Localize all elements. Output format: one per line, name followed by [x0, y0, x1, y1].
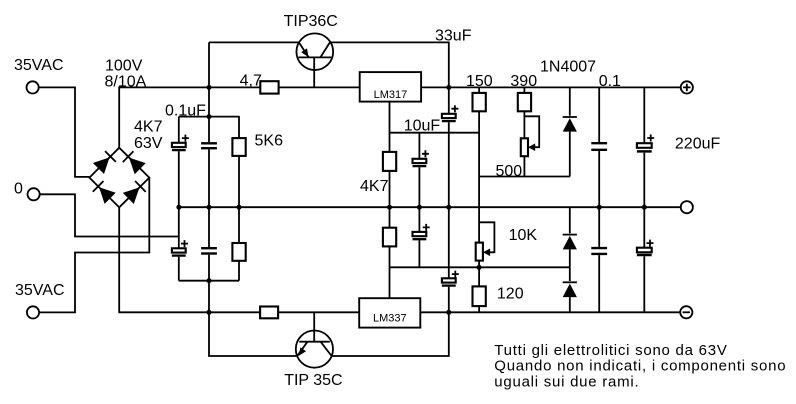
transistor TIP35C	[296, 312, 449, 367]
bridge rectifier diamond	[89, 148, 149, 208]
svg-text:1N4007: 1N4007	[540, 59, 596, 76]
bridge diode D1 (left-top edge)	[93, 151, 116, 174]
bridge diode D4 (bottom-right edge)	[123, 181, 146, 204]
wire: LM337 ADJ node line	[390, 266, 570, 268]
capacitor 0.1 (non-polar)	[591, 87, 607, 207]
wire: main vertical node column x=208.5 (top wire corner to cap)	[208, 42, 210, 142]
resistor 5K6 lower	[232, 207, 245, 281]
terminal + output	[681, 81, 693, 93]
svg-text:0.1uF: 0.1uF	[165, 103, 206, 120]
svg-text:5K6: 5K6	[255, 133, 284, 150]
svg-text:0: 0	[14, 181, 23, 198]
svg-text:Quando non indicati, i compone: Quando non indicati, i componenti sono	[494, 358, 786, 375]
svg-text:500: 500	[496, 163, 523, 180]
wire: top raw + rail	[119, 87, 681, 147]
svg-text:LM337: LM337	[373, 313, 407, 325]
capacitor 0.1 lower (non-polar)	[591, 207, 607, 312]
svg-text:TIP36C: TIP36C	[284, 13, 338, 30]
svg-text:35VAC: 35VAC	[14, 57, 64, 74]
svg-text:TIP 35C: TIP 35C	[284, 372, 342, 389]
svg-text:4,7: 4,7	[240, 73, 262, 90]
op-amp box LM317	[360, 72, 421, 102]
svg-text:8/10A: 8/10A	[105, 74, 147, 91]
trimmer 500	[521, 116, 539, 176]
terminal 0	[27, 188, 178, 236]
terminal 35VAC top	[26, 81, 89, 177]
resistor 4,7 (series + rail)	[260, 81, 278, 93]
junction dots	[207, 85, 212, 90]
terminal - output	[680, 306, 692, 318]
capacitor 0.1uF lower (non-polar)	[201, 207, 217, 253]
svg-text:33uF: 33uF	[435, 28, 472, 45]
bridge diode D2 (right-top edge)	[123, 151, 146, 174]
diode 1N4007 top	[563, 87, 577, 176]
svg-text:10uF: 10uF	[404, 118, 441, 135]
bridge diode D3 (bottom-left edge)	[93, 181, 116, 204]
note text	[494, 342, 786, 390]
capacitor 4K7 63V - (electrolytic lower)	[172, 207, 188, 281]
svg-text:LM317: LM317	[374, 89, 408, 101]
wire: bottom raw - rail	[119, 207, 681, 312]
svg-text:4K7: 4K7	[360, 178, 389, 195]
capacitor 33uF (electrolytic)	[442, 87, 459, 207]
transistor TIP36C	[209, 33, 449, 87]
svg-text:150: 150	[466, 73, 493, 90]
svg-text:uguali sui due rami.: uguali sui due rami.	[494, 373, 639, 390]
svg-text:10K: 10K	[509, 227, 538, 244]
svg-text:0.1: 0.1	[599, 73, 621, 90]
terminal 0 output	[681, 201, 693, 213]
diode 1N4007 lower-2	[563, 267, 577, 312]
capacitor 4K7 63V + (electrolytic)	[172, 117, 189, 208]
resistor 5K6	[232, 117, 245, 208]
wire: node to - rail and TIP35C emitter	[209, 255, 297, 356]
resistor 150	[473, 87, 486, 243]
wire: LM317 ADJ	[390, 102, 480, 133]
capacitor 220uF + (electrolytic)	[637, 87, 654, 207]
capacitor 10uF (electrolytic)	[413, 133, 429, 208]
terminal 35VAC bottom	[27, 178, 149, 319]
wire: 500 bottom line	[479, 176, 570, 178]
op-amp box LM337	[359, 298, 420, 327]
trimmer 10K	[476, 222, 495, 267]
svg-text:63V: 63V	[134, 135, 163, 152]
resistor 4K7 lower (LM337 adj)	[383, 207, 396, 267]
wire: middle 0V rail	[179, 206, 681, 208]
resistor 4,7 lower (series - rail)	[260, 307, 278, 319]
svg-text:35VAC: 35VAC	[15, 282, 65, 299]
svg-text:4K7: 4K7	[134, 119, 163, 136]
capacitor 33uF lower (electrolytic)	[442, 207, 459, 312]
resistor 390	[518, 87, 531, 138]
svg-text:390: 390	[510, 73, 537, 90]
svg-text:100V: 100V	[105, 58, 143, 75]
capacitor 10uF lower (electrolytic)	[413, 207, 430, 267]
svg-text:220uF: 220uF	[675, 136, 721, 153]
capacitor 220uF - (electrolytic)	[637, 207, 654, 312]
capacitor 0.1uF (non-polar)	[201, 143, 217, 207]
svg-text:Tutti gli elettrolitici sono d: Tutti gli elettrolitici sono da 63V	[494, 342, 727, 359]
resistor 120	[473, 267, 486, 312]
resistor 4K7 (LM317 adj)	[383, 133, 396, 208]
wire: top node line 0.1uF/5K6	[179, 116, 240, 118]
diode 1N4007 lower-1	[563, 207, 577, 267]
svg-text:120: 120	[497, 286, 524, 303]
lower filter bank: node line	[179, 280, 239, 282]
